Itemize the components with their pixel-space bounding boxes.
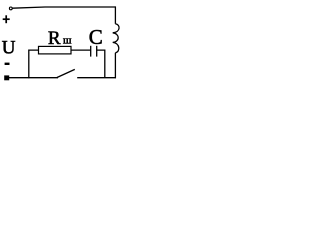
resistor Rш (box) [39, 46, 72, 54]
plus sign label [3, 15, 10, 23]
wire RC branch left (junction up and to resistor) [29, 50, 39, 78]
terminal - (filled square, bottom left) [4, 75, 9, 80]
svg-text:U: U [2, 38, 16, 59]
inductor L (3-bump coil on right wire) [113, 24, 119, 53]
wire right lower (coil to bottom-right corner) [114, 53, 116, 78]
wire top (from + terminal to top-right corner) [12, 7, 115, 8]
svg-text:C: C [89, 25, 103, 49]
svg-text:ш: ш [63, 34, 72, 46]
svg-text:R: R [48, 28, 61, 49]
wire capacitor to bottom junction [97, 50, 105, 78]
capacitor C (plates) [91, 46, 97, 57]
wire resistor to capacitor [71, 49, 91, 51]
wire right upper (top-right corner down to coil) [114, 6, 116, 23]
wire bottom right (corner to cap junction to switch right contact) [77, 77, 116, 79]
minus sign label [5, 63, 10, 65]
terminal + (open circle, top left) [9, 7, 12, 10]
switch S (blade) [57, 69, 75, 77]
wire bottom left (switch left contact to - terminal) [9, 77, 58, 79]
